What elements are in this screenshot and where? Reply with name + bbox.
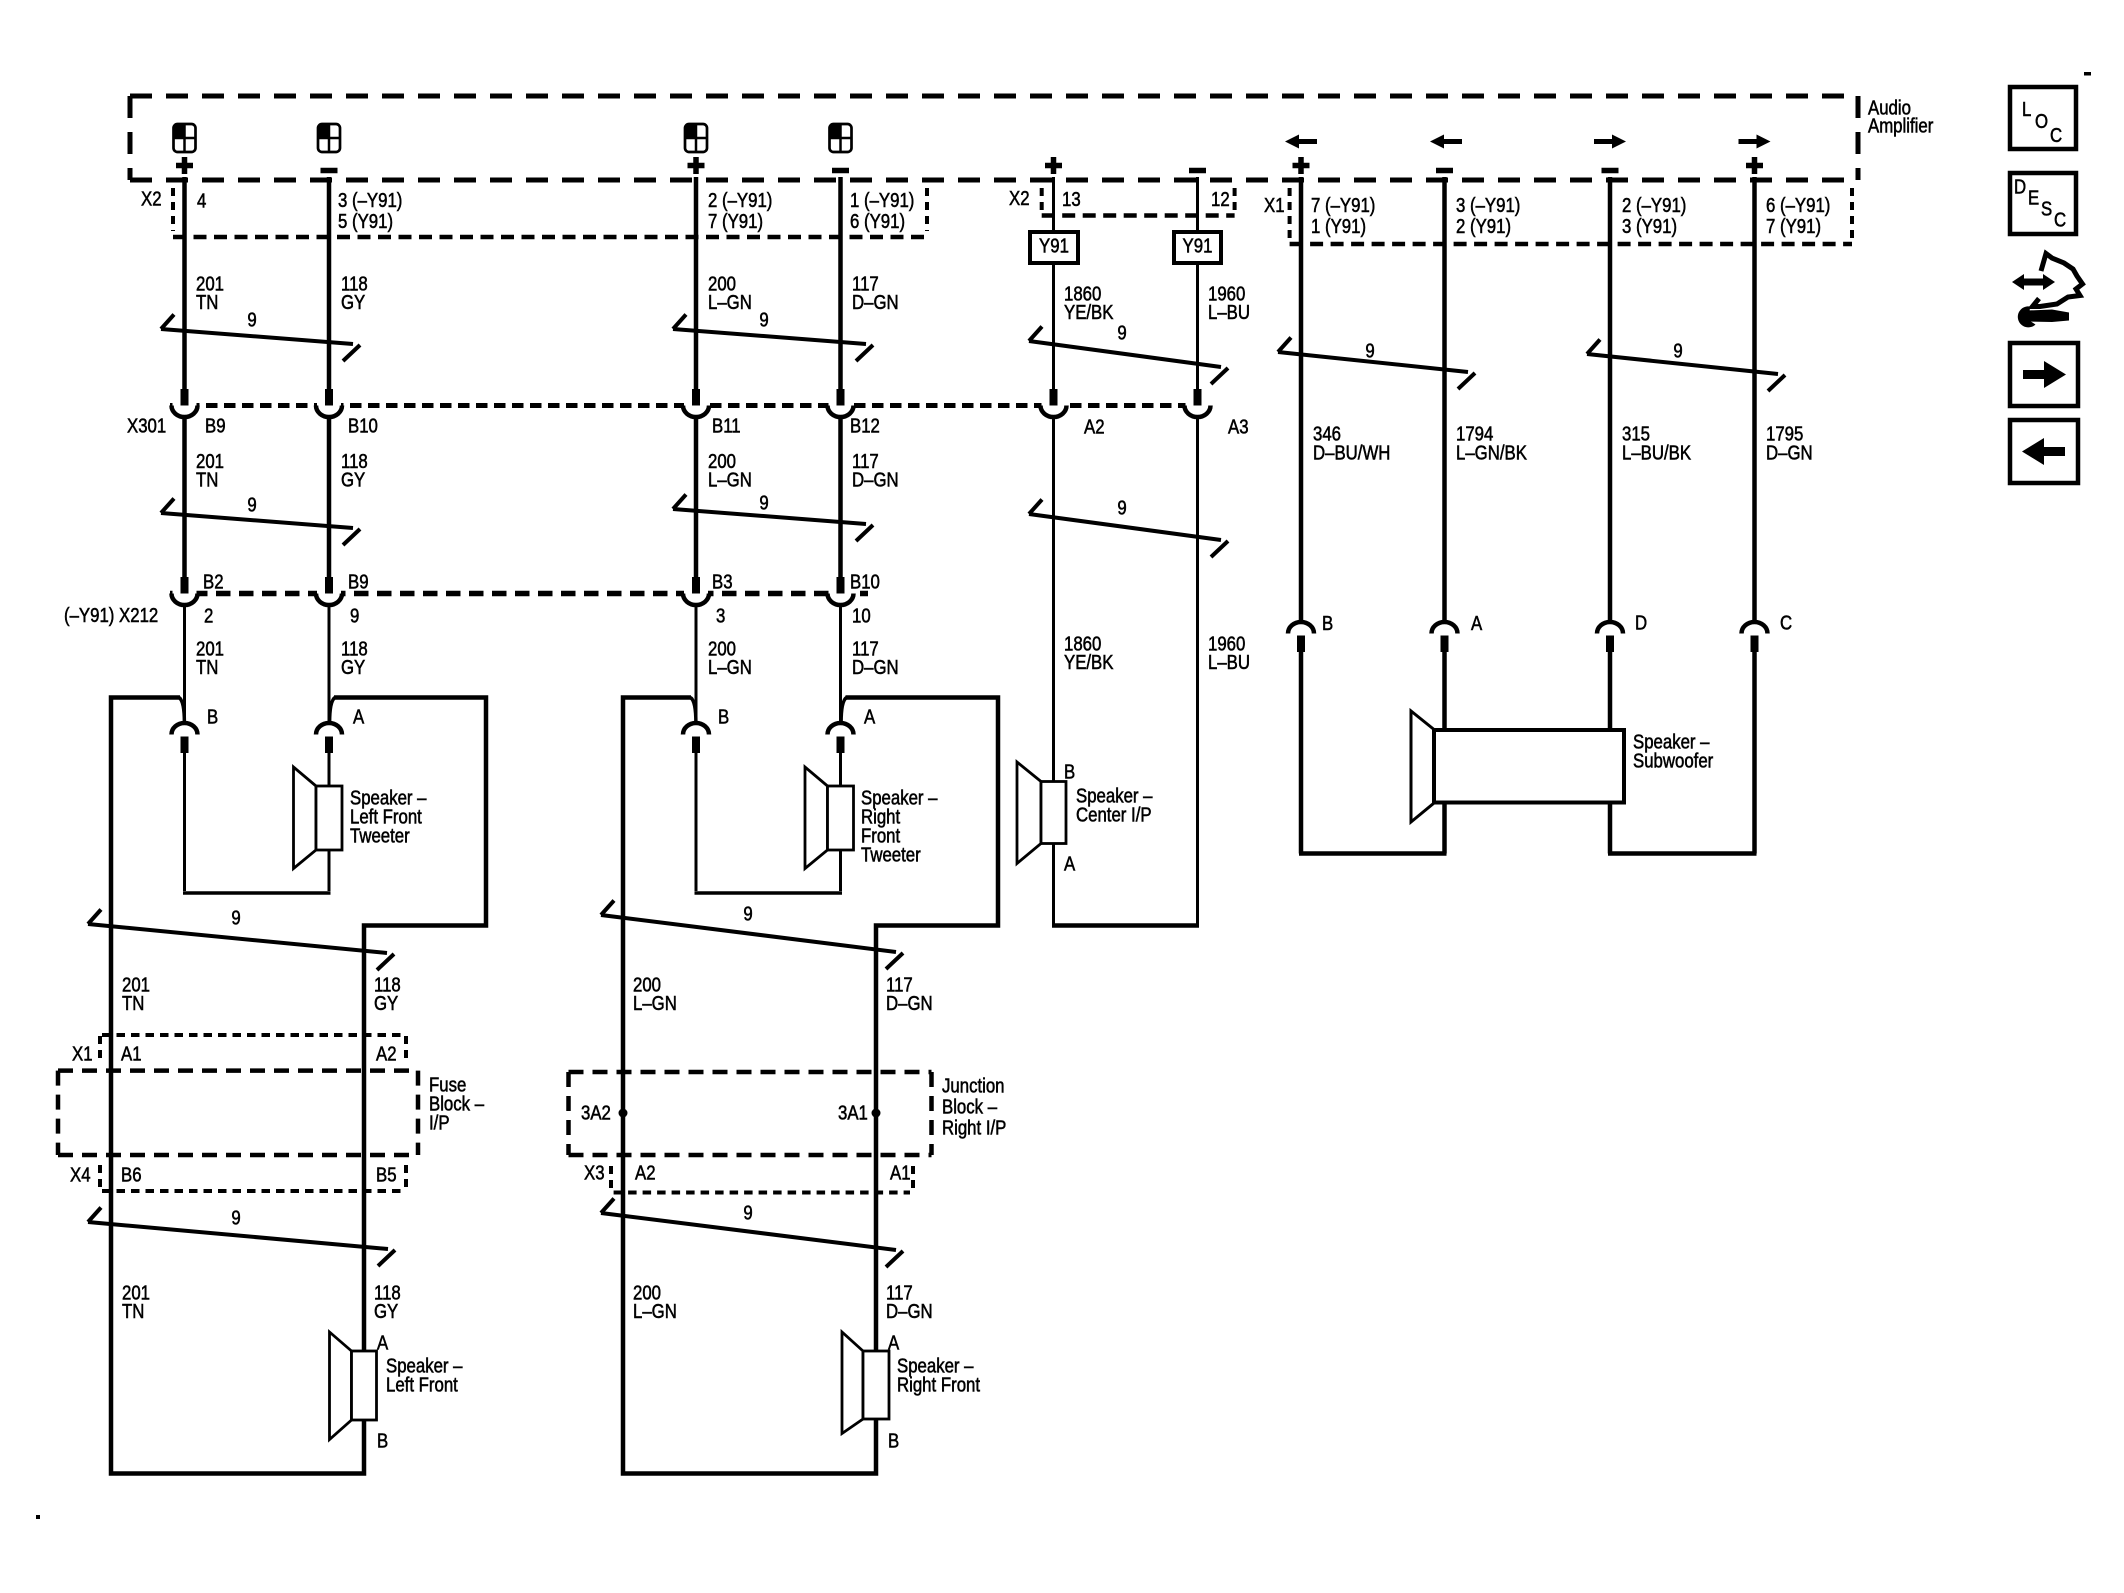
svg-text:E: E [2028, 186, 2039, 209]
svg-text:10: 10 [852, 604, 871, 627]
wire label 200 L-GN row B [708, 450, 752, 491]
svg-text:4: 4 [197, 189, 206, 212]
svg-text:B3: B3 [712, 570, 733, 593]
connector X301 dashed line [170, 403, 1210, 408]
wire label 201 TN row B [196, 450, 224, 491]
svg-text:A2: A2 [635, 1161, 656, 1184]
subwoofer connector arc C [1742, 622, 1768, 652]
svg-text:B9: B9 [205, 414, 226, 437]
svg-text:9: 9 [350, 604, 359, 627]
svg-text:2 (Y91): 2 (Y91) [1456, 215, 1511, 238]
wire label 200 L-GN row E [633, 1281, 677, 1322]
polarity - wire 2 [321, 168, 338, 174]
speaker left front label [386, 1354, 463, 1396]
svg-text:B2: B2 [203, 570, 224, 593]
svg-text:D–GN: D–GN [886, 1300, 933, 1323]
svg-text:13: 13 [1062, 188, 1081, 211]
harness 9 slash wires 1-2 row2 [161, 499, 360, 546]
speaker left front icon [330, 1332, 377, 1440]
svg-text:2: 2 [204, 604, 213, 627]
svg-text:9: 9 [743, 1201, 752, 1224]
svg-text:3: 3 [716, 604, 725, 627]
wire label 200 L-GN row D [633, 973, 677, 1014]
wire 201 TN X301 to X212 [182, 417, 187, 579]
wire 118 GY hook at tweeter A [328, 605, 331, 641]
connector X212 terminal wire 2 [316, 577, 342, 605]
speaker subwoofer label [1633, 730, 1713, 772]
tweeter left entry hook A [330, 698, 335, 723]
harness 9 slash wires 3-4 row2 [673, 495, 873, 542]
stray mark bottom left [36, 1515, 40, 1519]
X1 pin 7/1 [1311, 194, 1375, 238]
svg-text:Right Front: Right Front [897, 1373, 980, 1396]
harness 9 slash wires 7-8 [1278, 338, 1475, 390]
harness 9 slash wires 9-10 [1587, 340, 1785, 392]
svg-text:X301: X301 [127, 414, 166, 437]
svg-text:B: B [888, 1429, 899, 1452]
svg-text:L: L [2022, 98, 2031, 121]
speaker left front tweeter label [350, 786, 427, 847]
subwoofer bottom wire right [1608, 851, 1757, 856]
svg-text:9: 9 [1673, 339, 1682, 362]
svg-text:D–GN: D–GN [1766, 441, 1813, 464]
svg-text:1 (Y91): 1 (Y91) [1311, 215, 1366, 238]
speaker center I/P icon [1017, 762, 1066, 864]
svg-text:Amplifier: Amplifier [1868, 114, 1933, 137]
svg-text:A1: A1 [121, 1042, 142, 1065]
speaker left front tweeter circuit loop outline [111, 698, 486, 1474]
legend backward arrow box [2010, 420, 2078, 483]
svg-text:D–GN: D–GN [852, 468, 899, 491]
tweeter connector arc A left [316, 723, 342, 753]
option box Y91 wire 6 [1174, 232, 1221, 263]
svg-text:9: 9 [1365, 339, 1374, 362]
wire 1960 L-BU amp to Y91 [1196, 177, 1199, 233]
svg-text:TN: TN [122, 1300, 144, 1323]
wire 117 D-GN amp to X301 [838, 177, 843, 390]
junction block label [942, 1074, 1006, 1139]
svg-text:L–BU: L–BU [1208, 651, 1250, 674]
svg-text:7 (Y91): 7 (Y91) [708, 210, 763, 233]
wire 118 GY amp to X301 [327, 177, 332, 390]
connector X2 band wires 5-6 [1042, 188, 1235, 216]
svg-text:YE/BK: YE/BK [1064, 301, 1114, 324]
polarity + wire 3 [688, 157, 705, 174]
svg-text:X3: X3 [584, 1161, 605, 1184]
polarity + wire 7 [1293, 157, 1310, 174]
svg-text:3 (–Y91): 3 (–Y91) [1456, 194, 1520, 217]
svg-text:X2: X2 [141, 187, 162, 210]
svg-text:12: 12 [1211, 188, 1230, 211]
wire 118 GY down to tweeter A arc [328, 640, 331, 723]
connector X301 terminal wire 4 [828, 389, 854, 417]
svg-text:A: A [377, 1331, 389, 1354]
audio amplifier U1 dashed outline [130, 96, 1858, 180]
fuse block I/P label [429, 1073, 485, 1134]
center speaker bottom wire [1052, 923, 1199, 928]
signal arrow wire 8 [1430, 135, 1462, 149]
svg-text:A: A [1064, 852, 1076, 875]
wire label 118 GY row A [341, 272, 368, 313]
svg-text:L–GN: L–GN [708, 656, 752, 679]
subwoofer connector arc A [1432, 622, 1458, 652]
connector X301 terminal wire 1 [172, 389, 198, 417]
svg-text:S: S [2041, 197, 2052, 220]
svg-text:9: 9 [247, 308, 256, 331]
legend forward arrow box [2010, 343, 2078, 406]
X1 pin 6/7 [1766, 194, 1830, 238]
polarity - wire 4 [832, 168, 849, 174]
connector X301 terminal wire 2 [316, 389, 342, 417]
svg-text:9: 9 [231, 1206, 240, 1229]
subwoofer wires below arcs [1301, 652, 1755, 854]
svg-text:Y91: Y91 [1183, 234, 1213, 257]
subwoofer connector arc D [1597, 622, 1623, 652]
wire label 118 GY row B [341, 450, 368, 491]
connector X212 terminal wire 1 [172, 577, 198, 605]
wire label 201 TN row E [122, 1281, 150, 1322]
speaker right front label [897, 1354, 980, 1396]
wire 346 D-BU/WH amp down [1299, 177, 1304, 624]
svg-text:I/P: I/P [429, 1111, 450, 1134]
svg-text:X1: X1 [1264, 194, 1285, 217]
connector X301 terminal wire 6 [1185, 389, 1211, 417]
speaker right front tweeter icon [805, 767, 854, 869]
svg-text:TN: TN [196, 291, 218, 314]
svg-text:Center I/P: Center I/P [1076, 803, 1152, 826]
wire label 117 D-GN row D [886, 973, 933, 1014]
wire label 117 D-GN row B [852, 450, 899, 491]
right tweeter connector arc B [683, 723, 709, 753]
wire 1795 D-GN amp down [1752, 177, 1757, 624]
wire label 118 GY row C [341, 637, 368, 678]
legend service icon swoosh outline [2033, 254, 2083, 307]
svg-text:B10: B10 [850, 570, 880, 593]
svg-text:B10: B10 [348, 414, 378, 437]
svg-text:TN: TN [196, 468, 218, 491]
svg-text:9: 9 [759, 491, 768, 514]
svg-text:B9: B9 [348, 570, 369, 593]
svg-text:2 (–Y91): 2 (–Y91) [1622, 194, 1686, 217]
svg-text:7 (Y91): 7 (Y91) [1766, 215, 1821, 238]
svg-text:B5: B5 [376, 1163, 397, 1186]
svg-text:O: O [2035, 110, 2048, 133]
svg-text:B12: B12 [850, 414, 880, 437]
X2 pin 2/7 [708, 189, 772, 233]
polarity + wire 10 [1746, 157, 1763, 174]
svg-text:5 (Y91): 5 (Y91) [338, 210, 393, 233]
svg-text:L–GN: L–GN [708, 468, 752, 491]
wire label 346 D-BU/WH [1313, 422, 1390, 464]
connector X1 band wires 7-10 [1290, 188, 1852, 244]
wire 1860 YE/BK amp to Y91 [1052, 177, 1055, 233]
X1 pin 2/3 [1622, 194, 1686, 238]
connector X212 terminal wire 3 [683, 577, 709, 605]
svg-text:A: A [864, 705, 876, 728]
legend service icon wrench [2018, 306, 2069, 327]
fuse block I/P dashed outline [58, 1071, 418, 1155]
connector X212 dashed line [170, 591, 868, 597]
amplifier speaker-output icon 3 [685, 124, 707, 152]
svg-text:9: 9 [1117, 321, 1126, 344]
svg-text:GY: GY [341, 291, 365, 314]
svg-text:A2: A2 [376, 1042, 397, 1065]
wire 117 D-GN X301 to X212 [838, 417, 843, 579]
X2 pin 3/5 [338, 189, 402, 233]
right tweeter connector arc A [828, 723, 854, 753]
wire label 1795 D-GN [1766, 422, 1813, 464]
audio amplifier label [1868, 96, 1933, 137]
svg-text:A: A [1471, 612, 1483, 635]
wire 118 GY X301 to X212 [327, 417, 332, 579]
wire label 201 TN row C [196, 637, 224, 678]
svg-text:GY: GY [374, 1300, 398, 1323]
connector X301 terminal wire 5 [1041, 389, 1067, 417]
connector X3 band junction block [611, 1166, 913, 1193]
svg-text:Tweeter: Tweeter [861, 843, 921, 866]
connector X212 terminal wire 4 [828, 577, 854, 605]
wire label 315 L-BU/BK [1622, 422, 1692, 464]
svg-text:L–GN/BK: L–GN/BK [1456, 441, 1528, 464]
svg-text:B: B [1064, 760, 1075, 783]
wire label 1960 L-BU row A [1208, 282, 1250, 323]
wire 200 L-GN X301 to X212 [694, 417, 699, 579]
harness 9 slash wires 1-2 row1 [161, 315, 360, 362]
right tweeter inner loop wires [695, 753, 843, 893]
svg-text:3 (–Y91): 3 (–Y91) [338, 189, 402, 212]
wire label 1860 YE/BK row C [1064, 632, 1114, 673]
svg-text:D: D [1635, 611, 1647, 634]
svg-text:YE/BK: YE/BK [1064, 651, 1114, 674]
tweeter left entry hook B [179, 698, 184, 723]
wire 1860 Y91 to X301 [1052, 263, 1055, 390]
harness 9 slash right loop row4 [601, 1199, 903, 1268]
svg-text:9: 9 [1117, 496, 1126, 519]
svg-text:C: C [2050, 124, 2062, 147]
amplifier speaker-output icon 1 [174, 124, 196, 152]
wire label 1794 L-GN/BK [1456, 422, 1528, 464]
svg-text:D–GN: D–GN [852, 291, 899, 314]
right tweeter entry hook A [841, 698, 846, 723]
svg-text:1 (–Y91): 1 (–Y91) [850, 189, 914, 212]
svg-text:L–GN: L–GN [633, 992, 677, 1015]
legend LOC box [2010, 87, 2076, 149]
svg-text:C: C [1780, 611, 1792, 634]
speaker center I/P label [1076, 784, 1153, 826]
connector X4 band fuse block [100, 1165, 406, 1191]
svg-text:3A1: 3A1 [838, 1101, 868, 1124]
polarity - wire 8 [1436, 168, 1453, 174]
wire label 118 GY row D [374, 973, 401, 1014]
svg-text:9: 9 [743, 902, 752, 925]
wire 1960 X301 down [1196, 417, 1199, 926]
speaker right front icon [842, 1332, 889, 1434]
wire label 1860 YE/BK row A [1064, 282, 1114, 323]
speaker subwoofer icon [1411, 711, 1624, 822]
svg-text:X4: X4 [70, 1163, 91, 1186]
svg-text:7 (–Y91): 7 (–Y91) [1311, 194, 1375, 217]
harness 9 slash wires 5-6 row2 [1029, 500, 1228, 558]
subwoofer connector arc B [1288, 622, 1314, 652]
harness 9 slash left loop row4 [88, 1208, 395, 1267]
wire 200 L-GN X212 to tweeter [695, 605, 698, 724]
stray mark top right [2084, 72, 2091, 76]
svg-text:TN: TN [196, 656, 218, 679]
svg-text:(–Y91) X212: (–Y91) X212 [64, 604, 158, 627]
svg-text:Tweeter: Tweeter [350, 824, 410, 847]
subwoofer bottom wire left [1299, 851, 1447, 856]
wire 1960 Y91 to X301 [1196, 263, 1199, 390]
harness 9 slash wires 3-4 row1 [673, 315, 873, 362]
signal arrow wire 7 [1285, 135, 1317, 149]
svg-text:Junction: Junction [942, 1074, 1005, 1097]
svg-text:GY: GY [374, 992, 398, 1015]
svg-text:9: 9 [247, 493, 256, 516]
svg-text:6 (Y91): 6 (Y91) [850, 210, 905, 233]
wire label 200 L-GN row A [708, 272, 752, 313]
svg-text:Right I/P: Right I/P [942, 1116, 1006, 1139]
svg-text:B: B [718, 705, 729, 728]
junction block right I/P dashed outline [569, 1072, 932, 1155]
svg-text:D: D [2014, 175, 2026, 198]
connector X2 band wires 1-4 [173, 188, 927, 237]
wire 315 L-BU/BK amp down [1608, 177, 1613, 624]
wire 201 TN amp to X301 [182, 177, 187, 390]
wire 1860 X301 down to speaker [1052, 417, 1055, 926]
connector X1 band fuse block [100, 1035, 406, 1062]
wire 1794 L-GN/BK amp down [1442, 177, 1447, 624]
svg-text:B: B [377, 1429, 388, 1452]
svg-text:6 (–Y91): 6 (–Y91) [1766, 194, 1830, 217]
polarity + wire 5 [1045, 157, 1062, 174]
legend service icon double arrow [2012, 274, 2055, 290]
svg-text:L–GN: L–GN [708, 291, 752, 314]
signal arrow wire 9 [1594, 135, 1626, 149]
wire label 1960 L-BU row C [1208, 632, 1250, 673]
svg-text:3 (Y91): 3 (Y91) [1622, 215, 1677, 238]
svg-text:D–GN: D–GN [886, 992, 933, 1015]
wire label 200 L-GN row C [708, 637, 752, 678]
svg-text:GY: GY [341, 468, 365, 491]
wire 117 D-GN down to tweeter A arc [839, 640, 842, 723]
polarity + wire 1 [176, 157, 193, 174]
junction block pin 3A2 [581, 1101, 628, 1124]
signal arrow wire 10 [1739, 135, 1771, 149]
connector X301 terminal wire 3 [683, 389, 709, 417]
speaker right front tweeter circuit loop outline [623, 698, 998, 1474]
svg-text:C: C [2054, 208, 2066, 231]
svg-text:B: B [207, 705, 218, 728]
svg-text:2 (–Y91): 2 (–Y91) [708, 189, 772, 212]
right tweeter entry hook B [691, 698, 696, 723]
svg-text:TN: TN [122, 992, 144, 1015]
wire label 118 GY row E [374, 1281, 401, 1322]
amplifier speaker-output icon 4 [830, 124, 852, 152]
wire label 117 D-GN row C [852, 637, 899, 678]
wire label 201 TN row D [122, 973, 150, 1014]
speaker right front tweeter label [861, 786, 938, 866]
svg-text:3A2: 3A2 [581, 1101, 611, 1124]
wire label 117 D-GN row E [886, 1281, 933, 1322]
svg-text:A2: A2 [1084, 415, 1105, 438]
harness 9 slash wires 5-6 row1 [1029, 327, 1228, 385]
svg-text:X2: X2 [1009, 187, 1030, 210]
svg-text:9: 9 [759, 308, 768, 331]
option box Y91 wire 5 [1030, 232, 1078, 263]
wire 117 D-GN hook at tweeter A [839, 605, 842, 641]
svg-text:Subwoofer: Subwoofer [1633, 749, 1713, 772]
wire 200 L-GN amp to X301 [694, 177, 699, 390]
svg-text:D–GN: D–GN [852, 656, 899, 679]
svg-text:L–GN: L–GN [633, 1300, 677, 1323]
X1 pin 3/2 [1456, 194, 1520, 238]
left tweeter inner loop wires [183, 753, 331, 893]
svg-text:L–BU/BK: L–BU/BK [1622, 441, 1692, 464]
svg-text:A: A [888, 1331, 900, 1354]
svg-text:Y91: Y91 [1039, 234, 1069, 257]
svg-text:Left Front: Left Front [386, 1373, 458, 1396]
harness 9 slash left loop row3 [88, 910, 394, 971]
svg-text:L–BU: L–BU [1208, 301, 1250, 324]
tweeter connector arc B left [172, 723, 198, 753]
speaker left front tweeter icon [294, 767, 343, 869]
svg-text:9: 9 [231, 906, 240, 929]
wire label 201 TN row A [196, 272, 224, 313]
legend DESC box [2010, 173, 2076, 234]
polarity - wire 6 [1189, 168, 1206, 174]
svg-text:A: A [353, 705, 365, 728]
polarity - wire 9 [1602, 168, 1619, 174]
svg-text:B6: B6 [121, 1163, 142, 1186]
svg-text:A3: A3 [1228, 415, 1249, 438]
svg-text:A1: A1 [890, 1161, 911, 1184]
wire label 117 D-GN row A [852, 272, 899, 313]
svg-text:B: B [1322, 612, 1333, 635]
harness 9 slash right loop row3 [601, 901, 903, 970]
wire 201 TN X212 to tweeter [183, 605, 186, 724]
amplifier speaker-output icon 2 [318, 124, 340, 152]
svg-text:D–BU/WH: D–BU/WH [1313, 441, 1390, 464]
svg-text:X1: X1 [72, 1042, 93, 1065]
svg-text:B11: B11 [712, 414, 741, 437]
X2 pin 1/6 [850, 189, 914, 233]
svg-text:GY: GY [341, 656, 365, 679]
svg-text:Block –: Block – [942, 1095, 998, 1118]
junction block pin 3A1 [838, 1101, 881, 1124]
